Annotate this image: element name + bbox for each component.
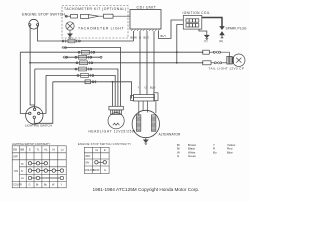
label (Y): [204, 39, 208, 43]
engine stop switch table text: [85, 149, 106, 172]
svg-text:BL/Y: BL/Y: [144, 36, 150, 40]
wire harness row G to headlight: [46, 75, 115, 106]
label BL/W: [131, 36, 138, 40]
regulator component: [154, 93, 158, 101]
svg-text:N: N: [21, 170, 23, 173]
wire engine stop switch ground lead: [29, 26, 31, 63]
connector bullets row E: [76, 61, 93, 65]
tail light bulb: [227, 54, 245, 66]
wire CDI pin 4 to alternator: [153, 31, 155, 93]
tail light label: [209, 66, 245, 70]
engine stop switch continuity circles: [95, 161, 107, 164]
svg-text:ENGINE STOP SWITCH: ENGINE STOP SWITCH: [22, 13, 65, 17]
wire left drop row G: [40, 75, 46, 113]
tachometer kit label: [64, 7, 126, 11]
alternator winding left: [136, 115, 141, 132]
lighting switch table header text: [13, 149, 64, 187]
svg-text:BL/W: BL/W: [131, 36, 138, 40]
lighting switch continuity table grid: [12, 146, 66, 188]
spark plug label: [226, 27, 248, 31]
label BL/Y pin5: [161, 34, 167, 38]
CDI unit bottom hatch: [131, 29, 160, 31]
node row H headlight branch: [112, 81, 114, 83]
svg-text:Green: Green: [188, 154, 196, 158]
ground tachometer light: [68, 32, 72, 39]
headlight label: [89, 129, 136, 133]
wire harness row B to alternator: [64, 48, 121, 107]
node coil wire to tail row 2: [176, 62, 178, 64]
svg-text:ALTERNATOR: ALTERNATOR: [159, 133, 181, 137]
connector arrow row D: [63, 56, 102, 59]
alternator case: [132, 110, 159, 137]
lighting switch: [26, 107, 43, 124]
alternator winding right: [151, 115, 156, 132]
wire CDI pin 5 to ignition coil: [159, 20, 184, 38]
alternator label: [159, 133, 181, 137]
wire harness row F to headlight: [35, 69, 118, 106]
svg-text:G: G: [104, 169, 106, 172]
wire left drop row F: [34, 69, 36, 105]
svg-text:ENGINE STOP SWITCH CONTINUITY: ENGINE STOP SWITCH CONTINUITY: [78, 142, 131, 146]
svg-text:SW: SW: [13, 149, 18, 152]
engine stop switch continuity table title: [78, 142, 131, 146]
wire engine stop switch BL/W lead to CDI: [38, 26, 134, 41]
svg-text:CDI UNIT: CDI UNIT: [137, 6, 157, 10]
svg-text:TACHOMETER LIGHT: TACHOMETER LIGHT: [78, 27, 124, 31]
caption: [93, 187, 200, 192]
engine stop switch continuity table grid: [84, 147, 109, 173]
wire coil primary low side: [177, 25, 184, 63]
svg-text:SPARK PLUG: SPARK PLUG: [226, 27, 248, 31]
ignition coil: [183, 15, 202, 29]
engine stop switch label: [22, 13, 65, 17]
node coil wire to tail row 1: [176, 51, 178, 53]
spark plug: [220, 27, 224, 38]
svg-text:(Y): (Y): [204, 39, 208, 43]
svg-text:OFF: OFF: [13, 156, 18, 159]
lighting switch continuity circles row Lo: [28, 176, 63, 179]
svg-text:TACHOMETER KIT (OPTIONAL): TACHOMETER KIT (OPTIONAL): [64, 7, 126, 11]
wire harness row tail light 2: [30, 62, 203, 64]
label BL/Y above alternator: [150, 86, 156, 90]
wire CDI pin 1 BL/W: [133, 31, 135, 41]
CDI unit label: [137, 6, 157, 10]
wire left drop row H: [34, 82, 53, 124]
wire harness row tail light 1: [20, 51, 203, 53]
connector bullets row G: [77, 74, 94, 78]
tail light connector row 1: [203, 50, 230, 56]
tachometer light bulb: [66, 22, 74, 32]
svg-text:COLOR: COLOR: [13, 184, 22, 187]
svg-text:BL/Y: BL/Y: [150, 86, 156, 90]
label G above alternator: [145, 86, 147, 90]
svg-text:IGNITION COIL: IGNITION COIL: [183, 11, 211, 15]
lighting switch continuity table title: [12, 143, 51, 146]
svg-text:IG: IG: [96, 149, 99, 152]
wire harness row H to headlight and alternator: [53, 82, 132, 107]
tail light connector row 2: [203, 61, 227, 65]
tachometer kit dashed box: [62, 6, 128, 39]
wire CDI pin 3 to alternator: [146, 31, 148, 95]
svg-text:OFF: OFF: [85, 155, 90, 158]
tachometer light label: [78, 27, 124, 31]
node engine stop ground junction: [29, 62, 31, 64]
svg-text:ON: ON: [85, 162, 89, 165]
wire tachometer harness: [65, 14, 130, 18]
svg-text:Blue: Blue: [227, 150, 233, 154]
connector bullets row F: [75, 67, 92, 71]
wire coil ground: [199, 29, 207, 33]
engine stop switch: [29, 19, 39, 29]
wire coil secondary to spark plug: [202, 18, 222, 27]
svg-text:LIGHTING SWITCH: LIGHTING SWITCH: [25, 123, 52, 127]
wire left drop row E: [30, 63, 34, 109]
wire harness row D stub: [65, 56, 101, 58]
wire color legend: [177, 143, 236, 158]
svg-text:ON: ON: [14, 170, 18, 173]
svg-text:BM: BM: [20, 149, 24, 152]
ground ignition coil: [205, 33, 209, 40]
label (G): [219, 39, 223, 43]
svg-text:TAIL LIGHT 12V3 CP: TAIL LIGHT 12V3 CP: [209, 66, 245, 70]
svg-text:1981-1984 ATC125M Copyright Ho: 1981-1984 ATC125M Copyright Honda Motor …: [93, 187, 200, 192]
wire left drop row C to lighting switch: [20, 52, 28, 113]
headlight bulb: [108, 113, 124, 129]
svg-text:G: G: [139, 36, 141, 40]
svg-text:G: G: [145, 86, 147, 90]
alternator connector strip: [131, 95, 155, 102]
lighting switch continuity circles row Hi: [28, 162, 47, 165]
label G: [139, 36, 141, 40]
svg-text:Bu: Bu: [213, 150, 217, 154]
svg-text:(G): (G): [219, 39, 223, 43]
headlight socket: [109, 106, 123, 114]
connector block on row H: [85, 80, 96, 84]
svg-text:BL/W: BL/W: [93, 169, 100, 172]
lighting switch label: [25, 123, 52, 127]
wire CDI pin 2 to alternator: [139, 31, 141, 95]
svg-text:HEADLIGHT 12V25/25W: HEADLIGHT 12V25/25W: [89, 129, 136, 133]
svg-text:Y: Y: [138, 86, 140, 90]
svg-text:Br: Br: [36, 184, 39, 187]
CDI unit: [130, 10, 161, 30]
connector bullets row C: [78, 50, 95, 54]
svg-text:BL/Y: BL/Y: [161, 34, 167, 38]
connector pair on BL/W wire: [62, 39, 80, 43]
lighting switch continuity circles row N: [28, 169, 63, 172]
connector arrow row B: [62, 46, 67, 49]
label Y above alternator: [138, 86, 140, 90]
ground alternator: [144, 138, 148, 145]
ignition coil label: [183, 11, 211, 15]
wire alternator leads into case: [139, 101, 156, 116]
connector bullets row D: [75, 55, 92, 59]
svg-text:G: G: [29, 184, 31, 187]
label BL/Y pin3: [144, 36, 150, 40]
